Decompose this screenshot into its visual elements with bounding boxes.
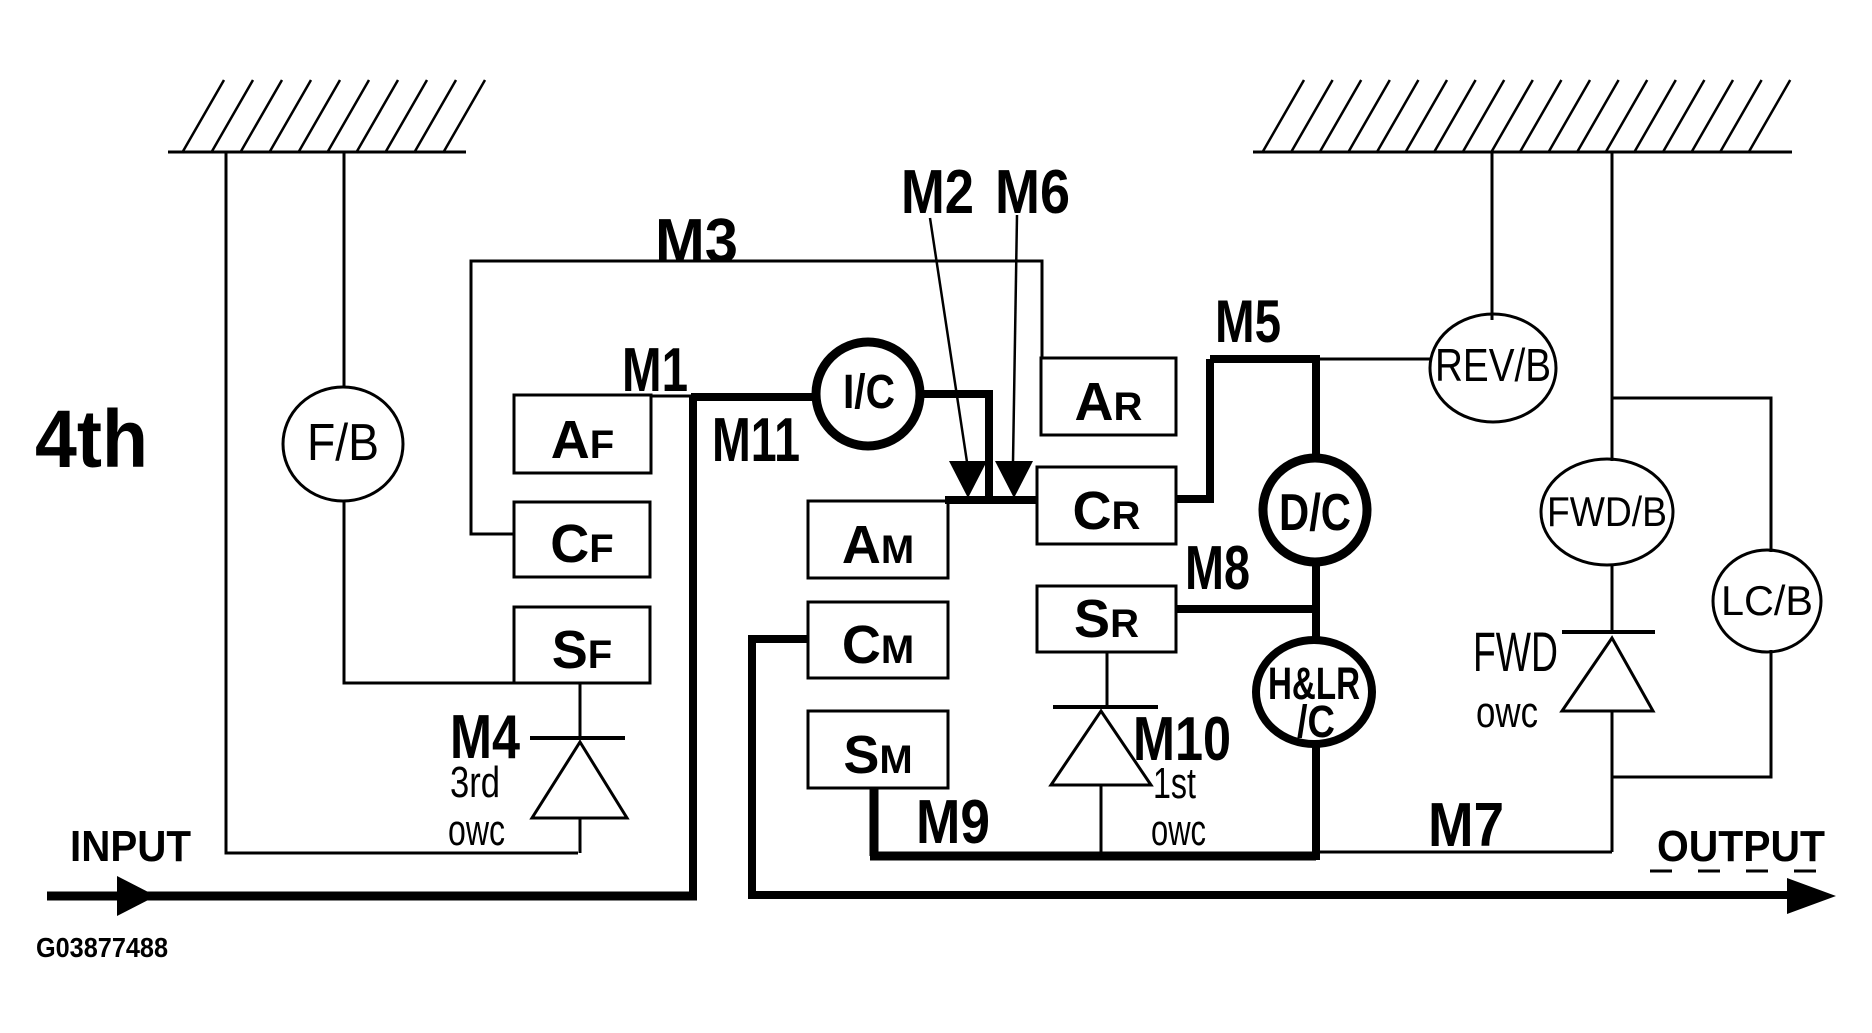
svg-text:owc: owc [1476,688,1538,737]
svg-text:4th: 4th [35,394,148,485]
wire SM to M9 net [870,788,1316,856]
svg-text:FWD/B: FWD/B [1547,488,1667,535]
clutch D/C [1263,458,1367,562]
wire left wall to F/B brake [343,152,346,388]
wire LC/B upper branch [1612,398,1771,552]
wire H&LR/C to M9 net [1312,742,1320,860]
clutch SM box [808,711,948,788]
svg-text:1st: 1st [1153,759,1196,808]
clutch SF box [514,607,650,683]
svg-text:D/C: D/C [1279,484,1351,542]
brake FWD/B [1541,459,1673,565]
svg-text:M3: M3 [655,207,738,276]
wire F/B to SF box [344,501,514,683]
wire M6 leader [1013,215,1017,462]
svg-text:M9: M9 [916,788,990,857]
svg-text:M7: M7 [1428,791,1504,860]
svg-text:M6: M6 [995,158,1070,227]
svg-text:INPUT: INPUT [70,822,191,871]
wire right wall to FWD/B [1611,152,1614,461]
wire LC/B lower branch [1612,650,1771,777]
svg-text:OUTPUT: OUTPUT [1657,822,1825,871]
svg-text:M8: M8 [1185,534,1250,603]
wire M8 net (SR to D/C shaft) [1176,605,1316,613]
one-way clutch M4 (3rd owc) [530,736,625,740]
svg-text:/C: /C [1297,696,1335,747]
brake REV/B [1430,314,1556,422]
clutch AM box [808,501,948,578]
svg-text:LC/B: LC/B [1721,577,1813,624]
wire M3 net [471,261,1042,534]
wire AF top edge extension to M11 node [651,395,697,398]
svg-text:owc: owc [1151,806,1206,855]
INPUT arrowhead [117,876,156,916]
brake F/B [283,387,403,501]
wire right wall to REV/B [1491,152,1494,320]
wire FWD owc to M7 net [1611,711,1614,852]
wire SR to M10 owc [1106,652,1109,707]
M2 arrowhead [949,461,987,498]
svg-text:FWD: FWD [1473,620,1558,683]
clutch CR box [1037,467,1176,544]
wire M5 net (CR to D/C) [1176,355,1316,499]
wire D/C to H&LR/C [1312,564,1320,644]
clutch CM box [808,602,948,678]
OUTPUT arrowhead [1787,878,1836,914]
clutch I/C [816,342,920,446]
wire M7 net [1316,851,1612,854]
one-way clutch M10 (1st owc) [1053,705,1158,709]
svg-text:G03877488: G03877488 [36,932,168,963]
clutch H&LR/C [1256,640,1372,744]
brake LC/B [1713,550,1821,652]
ground wall left (fixed case) [168,80,485,153]
wire left wall to M4 owc bottom node [226,152,578,853]
svg-text:F/B: F/B [307,414,379,472]
svg-text:I/C: I/C [843,366,895,419]
clutch CF box [514,502,650,577]
svg-text:3rd: 3rd [450,758,500,807]
wire M11 input shaft riser [691,397,814,900]
wire SF to M4 owc [579,683,582,738]
svg-text:REV/B: REV/B [1435,339,1551,391]
svg-text:M2: M2 [901,158,974,227]
wire I/C to M2/M6 junction [922,394,1037,500]
svg-text:M1: M1 [622,336,688,405]
clutch SR box [1037,586,1176,652]
clutch AR box [1041,358,1176,435]
wire FWD/B to FWD owc [1611,565,1614,632]
ground wall right (fixed case) [1253,80,1792,153]
dashed mark under OUTPUT [1650,870,1824,873]
wire INPUT shaft [47,892,697,901]
one-way clutch FWD owc [1562,630,1655,634]
wire M2 leader [930,218,967,462]
clutch AF box [514,395,651,473]
svg-text:M11: M11 [712,406,800,475]
svg-text:owc: owc [448,806,505,855]
M6 arrowhead [995,461,1033,498]
wire M5 to REV/B [1316,358,1432,361]
svg-text:M5: M5 [1215,288,1281,355]
wire CM to output shaft [748,639,1799,895]
